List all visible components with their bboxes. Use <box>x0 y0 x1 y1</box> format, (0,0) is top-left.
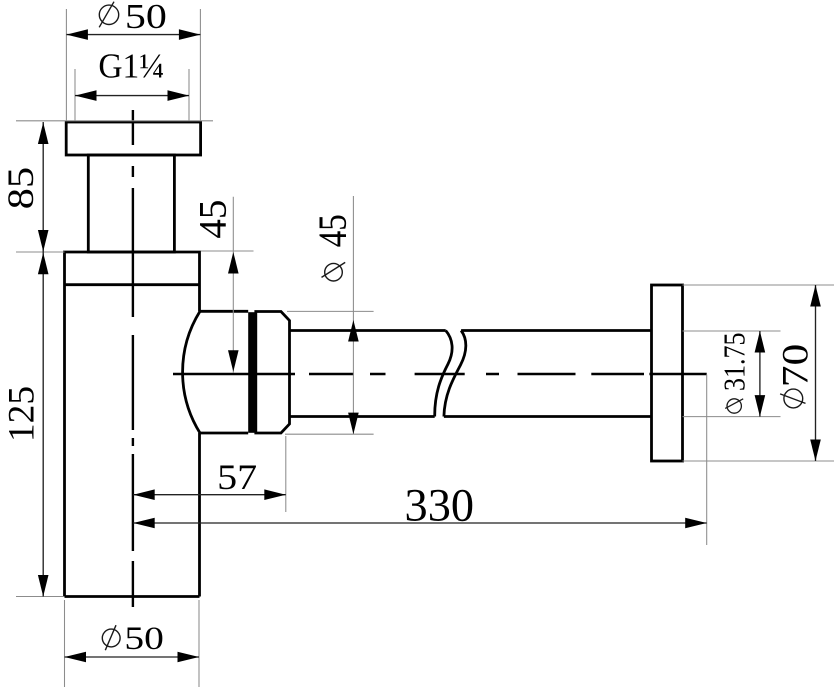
dim ∅50 top: extension lines <box>66 9 200 121</box>
dim 57: right arrow <box>264 489 286 500</box>
dim ∅31.75: diameter symbol <box>725 399 743 413</box>
outlet nut dome (left arc) <box>183 311 200 433</box>
dim ∅50 top: left arrow <box>66 29 88 40</box>
outlet nut thick seal bar <box>248 312 254 433</box>
trap body shoulder line <box>65 283 200 286</box>
dim ∅45: extension line at nut bottom <box>285 433 374 435</box>
dim ∅50 top: right arrow <box>179 29 201 40</box>
pipe break left curve <box>435 331 452 417</box>
dim 85: extension line at shoulder top <box>16 251 65 253</box>
horizontal centerline of pipe <box>173 373 707 375</box>
dim ∅70: down arrow <box>810 440 821 462</box>
dim 125: extension line at body bottom <box>16 596 65 598</box>
svg-text:45: 45 <box>192 200 235 239</box>
dim 330: dimension line <box>133 522 707 524</box>
dim ∅45: diameter symbol <box>322 262 346 281</box>
svg-text:50: 50 <box>125 0 167 36</box>
dim ∅50 bottom: diameter symbol <box>102 625 120 650</box>
dim ∅50 bottom: left arrow <box>65 652 87 663</box>
dim ∅50 bottom: right arrow <box>178 652 200 663</box>
svg-text:125: 125 <box>2 386 43 442</box>
inlet neck (threaded tube) <box>88 155 174 252</box>
dim 125: down arrow <box>38 575 49 597</box>
outlet nut top edge <box>200 310 248 313</box>
dim 45: extension line right of shoulder <box>201 250 254 252</box>
dim ∅45: down arrow <box>348 413 359 435</box>
svg-text:45: 45 <box>310 214 355 247</box>
dim 85: extension line at flange top <box>16 120 213 122</box>
outlet ring piece <box>256 312 290 434</box>
svg-text:G1¼: G1¼ <box>98 47 164 86</box>
dim 45: up arrow <box>228 252 239 274</box>
dim ∅45: extension line at nut top <box>287 310 374 312</box>
vertical centerline of trap <box>132 110 134 607</box>
dim G1¼: dimension line <box>75 95 189 97</box>
wall flange <box>652 285 683 461</box>
dim 330: left arrow <box>133 518 155 529</box>
svg-text:70: 70 <box>776 344 817 388</box>
dim ∅70: extension lines <box>683 285 834 461</box>
dim 85: up arrow <box>38 123 49 145</box>
trap body <box>65 252 200 597</box>
dim ∅45: up arrow <box>348 320 359 342</box>
dim 57: dimension line <box>133 494 286 496</box>
dim G1¼: left arrow <box>75 90 97 101</box>
outlet nut bottom edge <box>200 432 248 435</box>
horizontal pipe top edge <box>290 329 652 332</box>
dim 125: dimension line <box>42 252 44 597</box>
dim ∅70: diameter symbol <box>780 389 805 408</box>
dim G1¼: right arrow <box>168 90 190 101</box>
dim ∅31.75: extension lines <box>683 331 781 417</box>
dim ∅50 top: diameter symbol <box>99 2 119 28</box>
dim ∅50 top: dimension line <box>66 34 200 36</box>
dim ∅50 bottom: dimension line <box>65 656 200 658</box>
horizontal pipe bottom edge <box>290 415 652 418</box>
dim 85: down arrow <box>38 230 49 252</box>
dim 125: up arrow <box>38 253 49 275</box>
top flange (inlet nut) <box>66 122 200 155</box>
dim ∅31.75: down arrow <box>755 395 766 417</box>
dim 45: down arrow <box>228 350 239 372</box>
dim 57: left arrow <box>133 489 155 500</box>
dim ∅70: up arrow <box>810 285 821 307</box>
dim G1¼: extension lines <box>75 69 189 121</box>
dim 57: extension line <box>285 436 287 512</box>
dim 330: right arrow <box>685 518 707 529</box>
svg-text:85: 85 <box>1 167 42 210</box>
pipe break right curve <box>444 331 466 417</box>
dim ∅45: dimension line <box>352 196 354 434</box>
dim 45: dimension line <box>232 197 234 373</box>
dim ∅31.75: dimension line <box>759 331 761 417</box>
svg-text:50: 50 <box>124 621 164 657</box>
dim 85: dimension line <box>42 122 44 252</box>
dim ∅31.75: up arrow <box>755 331 766 353</box>
dim 330: extension line <box>706 375 708 546</box>
svg-text:330: 330 <box>405 479 475 531</box>
svg-text:31.75: 31.75 <box>717 333 752 392</box>
svg-text:57: 57 <box>217 457 257 497</box>
dim ∅50 bottom: extension lines <box>65 600 200 687</box>
dim ∅70: dimension line <box>815 285 817 461</box>
